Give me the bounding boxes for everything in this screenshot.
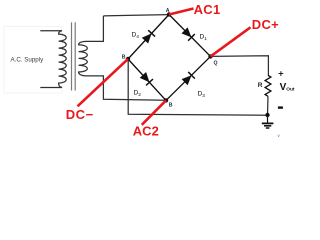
wire: secondary bottom lead to bottom node <box>86 76 166 100</box>
transformer primary coil <box>59 31 67 88</box>
bridge edge B-A <box>128 15 169 60</box>
junction node dot <box>265 113 269 117</box>
wire: primary top lead <box>40 30 62 32</box>
svg-text:AC2: AC2 <box>133 124 159 139</box>
diode D1 <box>181 27 195 41</box>
svg-text:+: + <box>278 68 284 79</box>
minus sign <box>278 106 283 108</box>
bridge edge A-Q <box>169 15 211 57</box>
wire: top wire to node A <box>103 15 169 16</box>
diode D3 <box>181 72 195 86</box>
bridge edge P-Q <box>166 56 211 100</box>
transformer core <box>71 22 73 90</box>
red lead DC+ <box>211 27 251 56</box>
transformer secondary coil <box>79 41 88 76</box>
svg-text:DC−: DC− <box>66 107 94 122</box>
svg-text:A: A <box>166 8 170 14</box>
svg-text:R: R <box>258 82 263 89</box>
diode D4 <box>142 30 156 44</box>
wire: Q to resistor <box>211 56 269 76</box>
wire: resistor to ground junction <box>267 96 270 115</box>
red lead DC- <box>78 59 129 106</box>
svg-text:DC+: DC+ <box>252 17 279 32</box>
svg-text:D3: D3 <box>198 91 206 99</box>
svg-text:Q: Q <box>214 60 218 66</box>
node A dot <box>167 12 171 16</box>
wire: primary bottom lead <box>40 87 62 89</box>
svg-text:VOut: VOut <box>280 82 295 93</box>
bridge edge B-P <box>128 59 166 100</box>
svg-text:v: v <box>278 133 281 138</box>
red lead AC1 <box>169 9 194 15</box>
wire: secondary top lead up to bridge <box>86 16 103 42</box>
svg-text:D2: D2 <box>134 90 142 98</box>
wire: DC- rail from B down and right to ground junction <box>128 59 267 115</box>
ground <box>262 115 274 128</box>
svg-text:AC1: AC1 <box>194 2 221 17</box>
svg-text:B: B <box>169 103 173 109</box>
svg-text:D4: D4 <box>132 32 140 40</box>
diode D2 <box>139 72 153 86</box>
node P dot (bottom) <box>164 98 168 102</box>
svg-text:D1: D1 <box>200 34 208 42</box>
red lead AC2 <box>142 100 166 124</box>
faint supply outline box <box>4 27 62 94</box>
svg-text:B: B <box>122 54 126 60</box>
resistor R zigzag <box>265 75 271 96</box>
node Q dot <box>208 54 212 58</box>
svg-text:A.C. Supply: A.C. Supply <box>11 56 45 63</box>
node B dot <box>126 57 130 61</box>
